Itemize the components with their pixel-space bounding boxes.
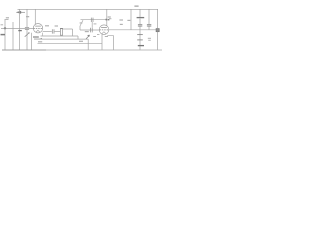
wire V2 side tick <box>107 35 113 37</box>
label ant <box>1 24 4 25</box>
label R4b <box>80 22 83 23</box>
battery B cell bar 2 <box>137 39 143 41</box>
wire filament A- line <box>38 43 103 45</box>
wire ground bus <box>2 49 162 51</box>
ground tick left <box>1 34 6 36</box>
wire tube V1 cathode to ground <box>31 33 33 50</box>
label P line2 <box>148 39 151 42</box>
tube V1 plate lead <box>34 9 36 24</box>
battery B cell bar 3 <box>138 45 144 47</box>
wire from R2 top <box>63 28 73 30</box>
wire grid of V2 <box>80 29 99 31</box>
label B+ <box>134 5 138 7</box>
node junction grid leak blob <box>106 19 110 21</box>
tube V2 plate bar <box>101 27 107 29</box>
wire plate feed vertical <box>130 9 132 30</box>
label T1 <box>127 20 130 21</box>
wire C5 leads <box>148 9 150 30</box>
capacitor C2 <box>52 29 54 33</box>
capacitor C5 bars <box>147 25 151 26</box>
wire left vertical 1 <box>4 20 6 50</box>
antenna arrowhead <box>16 11 21 14</box>
tube V2 grid dashes <box>99 29 108 31</box>
label A+ <box>79 41 83 42</box>
wire <box>54 30 60 32</box>
label P line1 <box>148 38 151 39</box>
label V2 line1 <box>119 19 123 20</box>
transformer T1 winding bars <box>138 25 142 26</box>
node junction at left post <box>4 27 6 29</box>
transformer T1 primary lead <box>139 9 141 17</box>
wire V2 cathode to ground <box>113 36 115 50</box>
tube V2 plate lead <box>106 9 108 25</box>
tube V2 filament <box>102 32 106 34</box>
wire antenna lead-in vertical <box>19 9 21 50</box>
tube V1 grid dashes <box>33 27 42 29</box>
wire left vertical 2 <box>12 22 14 50</box>
wire V2 filament leg to A- <box>101 34 103 50</box>
wire ground bus dark part <box>2 49 46 51</box>
transformer T1 primary winding <box>139 19 141 25</box>
resistor R2 <box>60 29 62 36</box>
wire phones vertical <box>157 9 159 50</box>
tube V2 envelope <box>99 25 109 35</box>
tube V1 envelope <box>33 24 42 33</box>
battery B cell bar 1 <box>137 34 143 36</box>
label f3 <box>97 33 99 36</box>
battery B vertical <box>139 30 141 50</box>
capacitor C3 <box>91 18 93 22</box>
label A <box>38 41 42 42</box>
rheostat R3 arrow <box>86 35 90 39</box>
tube V1 plate bar <box>35 25 41 27</box>
label above L1 <box>6 17 9 18</box>
wire V2 plate out <box>109 29 158 31</box>
phones jack J1 <box>156 29 159 32</box>
rheostat R3 arm <box>87 39 89 50</box>
wire plate output <box>43 30 52 32</box>
wire filament A+ line <box>34 38 88 40</box>
wire bracket down <box>72 29 74 36</box>
label C3 line2 <box>109 18 112 19</box>
capacitor C4 <box>91 28 93 33</box>
coil L1 tick <box>5 19 9 21</box>
wire <box>139 27 141 30</box>
wire B+ top rail <box>18 8 159 10</box>
wire cathode drop <box>42 33 44 36</box>
wire grid leak top <box>81 19 107 21</box>
node junction antenna tap <box>18 30 22 32</box>
rheostat R1 bars <box>33 36 39 38</box>
tube V1 filament <box>36 30 40 32</box>
capacitor C1 variable <box>25 9 30 50</box>
resistor R4 diagonal lead <box>80 20 83 26</box>
label f2 <box>105 36 108 37</box>
wire <box>79 26 81 30</box>
label C1 <box>26 16 29 17</box>
label R4 <box>85 31 89 32</box>
label C2 <box>55 25 58 26</box>
wire cap link <box>91 22 93 28</box>
resistor R2 top bar <box>60 28 63 30</box>
label c <box>94 23 97 24</box>
wire mid horizontal <box>41 35 79 37</box>
label f <box>93 36 96 37</box>
label V1 <box>45 25 49 26</box>
transformer T1 core bar <box>137 17 145 19</box>
wire left horizontal grid wire <box>1 28 33 30</box>
label C3 line1 <box>108 16 111 17</box>
label V2 line2 <box>120 24 123 25</box>
wire bracket 2 <box>77 36 79 39</box>
antenna arrow stub <box>20 11 25 13</box>
